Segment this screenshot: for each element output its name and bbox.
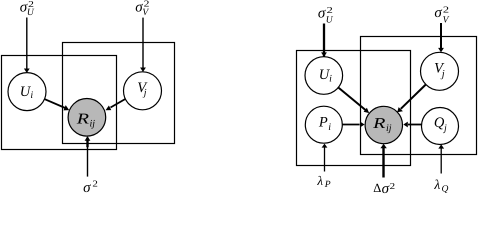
- svg-text:2: 2: [443, 4, 449, 14]
- label sigma2_U (left): [20, 0, 35, 18]
- svg-text:Q: Q: [442, 184, 449, 194]
- svg-text:2: 2: [390, 181, 396, 191]
- svg-text:σ: σ: [318, 6, 326, 22]
- svg-text:λ: λ: [316, 173, 323, 188]
- svg-text:R: R: [75, 112, 89, 128]
- node U_i (right): [305, 57, 343, 95]
- svg-text:V: V: [443, 15, 450, 25]
- plate M (right diagram, columns): [361, 37, 477, 155]
- wire Delta sigma2 to R_ij (right): [380, 144, 386, 178]
- svg-text:ij: ij: [90, 119, 96, 130]
- svg-text:i: i: [30, 90, 33, 101]
- svg-text:P: P: [318, 115, 328, 131]
- node U_i (left): [8, 73, 46, 111]
- svg-text:U: U: [27, 8, 35, 18]
- label sigma2_U (right): [318, 5, 334, 25]
- svg-text:σ: σ: [434, 5, 442, 21]
- svg-text:i: i: [329, 74, 332, 85]
- svg-text:σ: σ: [382, 181, 390, 194]
- node Q_j (right): [422, 108, 459, 145]
- svg-text:P: P: [324, 180, 331, 190]
- wire V_j to R_ij (right): [397, 85, 426, 113]
- label sigma2_V (left): [135, 0, 149, 18]
- wire P_i to R_ij (right): [342, 122, 364, 128]
- label sigma2 (left bottom): [83, 179, 98, 196]
- svg-text:U: U: [326, 15, 334, 25]
- svg-text:ij: ij: [386, 123, 392, 134]
- wire sigma2 to R_ij (left): [85, 136, 91, 176]
- label lambda_P (right bottom): [316, 173, 330, 190]
- wire sigma2_V to V_j (left): [140, 18, 146, 72]
- wire lambda_Q to Q_j (right): [438, 144, 444, 173]
- svg-text:σ: σ: [83, 180, 91, 194]
- svg-text:i: i: [328, 122, 331, 133]
- label sigma2_V (right): [434, 4, 449, 25]
- node R_ij observed (left): [68, 99, 106, 137]
- svg-text:2: 2: [327, 5, 333, 15]
- plate M (left diagram, columns): [63, 43, 175, 144]
- label Delta sigma2 (right bottom): [373, 181, 395, 197]
- plate N (left diagram, rows): [2, 56, 117, 150]
- wire sigma2_V to V_j (right): [438, 23, 444, 52]
- svg-text:V: V: [142, 8, 149, 18]
- svg-text:Δ: Δ: [373, 181, 381, 194]
- svg-text:λ: λ: [433, 177, 440, 192]
- wire Q_j to R_ij (right): [403, 122, 421, 128]
- node R_ij observed (right): [365, 106, 402, 143]
- wire U_i to R_ij (left): [45, 99, 70, 110]
- plate N (right diagram, rows): [297, 51, 411, 166]
- node V_j (right): [421, 52, 459, 90]
- wire U_i to R_ij (right): [338, 88, 369, 114]
- svg-text:R: R: [372, 116, 386, 132]
- node V_j (left): [124, 72, 162, 110]
- svg-text:2: 2: [92, 179, 98, 189]
- label lambda_Q (right bottom): [433, 177, 448, 195]
- wire lambda_P to P_i (right): [322, 144, 328, 172]
- wire sigma2_U to U_i (right): [321, 24, 327, 63]
- wire V_j to R_ij (left): [106, 99, 126, 110]
- node P_i (right): [305, 106, 342, 143]
- wire sigma2_U to U_i (left): [24, 18, 30, 74]
